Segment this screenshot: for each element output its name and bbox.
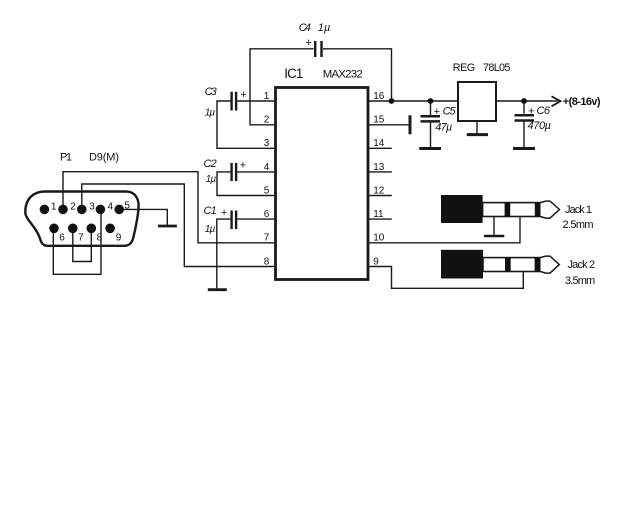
svg-text:11: 11	[373, 209, 384, 220]
capacitor C1 plates	[232, 211, 237, 230]
capacitor C2 plates	[232, 163, 237, 181]
svg-text:16: 16	[373, 91, 385, 102]
svg-text:8: 8	[97, 233, 103, 244]
connector Jack1 barrel	[483, 203, 541, 217]
svg-text:C3: C3	[205, 86, 218, 98]
svg-text:1µ: 1µ	[205, 224, 216, 235]
svg-text:12: 12	[373, 185, 385, 196]
svg-text:14: 14	[373, 138, 385, 149]
ground (Jack1)	[484, 235, 504, 238]
ground (C5)	[419, 147, 441, 150]
voltage regulator REG 78L05 box	[458, 82, 496, 121]
svg-text:47µ: 47µ	[435, 121, 452, 133]
node pin15 terminator bar	[409, 115, 412, 134]
node junction pin16/C4	[389, 98, 395, 104]
wire REG ground pin	[476, 121, 478, 133]
svg-text:C2: C2	[204, 158, 217, 170]
svg-text:2.5mm: 2.5mm	[563, 219, 594, 231]
wire DB9 pin2 to IC pin7	[63, 172, 274, 243]
connector Jack1 tip	[541, 201, 560, 218]
svg-text:5: 5	[264, 185, 270, 196]
node P1 pin9 dot	[105, 224, 115, 234]
svg-text:C5: C5	[443, 106, 457, 118]
svg-text:8: 8	[264, 256, 270, 267]
svg-text:C4: C4	[299, 22, 311, 34]
wire Jack1 sleeve to ground	[493, 217, 495, 235]
connector Jack2 tip	[541, 256, 560, 273]
svg-text:7: 7	[78, 233, 84, 244]
wire C3 right plate to IC pin1	[237, 100, 274, 102]
svg-text:+(8-16v): +(8-16v)	[563, 96, 601, 108]
wire C3 left plate to IC pin3	[217, 101, 274, 148]
connector Jack2 ring stripe1	[505, 258, 511, 272]
svg-text:5: 5	[124, 200, 130, 211]
wire IC pin12 stub	[369, 195, 392, 197]
node P1 pin1 dot	[40, 205, 50, 215]
node junction C6	[521, 98, 527, 104]
svg-text:6: 6	[59, 233, 65, 244]
svg-text:Jack 2: Jack 2	[568, 259, 596, 271]
node junction C5	[428, 98, 434, 104]
svg-text:9: 9	[116, 233, 122, 244]
svg-text:13: 13	[373, 162, 385, 173]
op-amp U1: IC1 MAX232 body	[276, 88, 369, 280]
svg-text:Jack 1: Jack 1	[565, 204, 592, 216]
capacitor C5 plates	[421, 116, 441, 121]
wire IC pin11 stub	[369, 218, 392, 220]
node P1 pin5 dot	[114, 205, 124, 215]
svg-text:C1: C1	[204, 205, 217, 217]
svg-text:4: 4	[264, 162, 270, 173]
wire REG output to supply arrow	[496, 100, 558, 102]
svg-text:78L05: 78L05	[483, 62, 510, 74]
svg-text:REG: REG	[453, 62, 475, 74]
svg-text:4: 4	[108, 202, 114, 213]
wire C2 left plate to IC pin5	[217, 172, 274, 196]
svg-text:+: +	[306, 37, 312, 49]
capacitor C6 legs	[523, 101, 525, 147]
svg-text:+: +	[240, 89, 246, 101]
node supply arrow head	[552, 96, 561, 106]
node P1 pin3 dot	[77, 205, 87, 215]
wire DB9 pin4 to pin6 link	[53, 209, 101, 274]
svg-text:1µ: 1µ	[205, 107, 216, 118]
svg-text:3: 3	[264, 138, 270, 149]
ground (DB9 pin5)	[158, 225, 177, 228]
svg-text:MAX232: MAX232	[323, 69, 363, 81]
wire C1 left plate down to ground	[217, 219, 231, 288]
connector Jack2 barrel	[483, 258, 541, 272]
svg-text:1µ: 1µ	[318, 22, 331, 34]
connector Jack1 ring stripe1	[505, 203, 511, 217]
svg-text:3.5mm: 3.5mm	[565, 275, 595, 287]
capacitor C6 plates	[515, 115, 535, 120]
connector P1 shell	[25, 192, 138, 246]
wire IC pin16 to REG input	[369, 100, 458, 102]
node P1 pin4 dot	[96, 205, 106, 215]
svg-text:2: 2	[70, 202, 76, 213]
svg-text:3: 3	[89, 202, 95, 213]
connector Jack1 body	[441, 195, 483, 223]
connector Jack2 body	[441, 250, 483, 279]
svg-text:1µ: 1µ	[206, 174, 217, 185]
svg-text:P1: P1	[60, 151, 72, 163]
ground (C6)	[513, 147, 535, 150]
wire C1 right plate to IC pin6	[237, 218, 274, 220]
svg-text:+: +	[528, 105, 534, 117]
connector Jack2 ring stripe2	[535, 258, 541, 272]
svg-text:10: 10	[373, 233, 385, 244]
wire IC pin10 to Jack1	[369, 217, 520, 243]
svg-text:+: +	[221, 207, 227, 219]
capacitor C3 plates	[232, 92, 237, 111]
svg-text:470µ: 470µ	[528, 120, 552, 132]
svg-text:15: 15	[373, 115, 385, 126]
connector Jack1 ring stripe2	[535, 203, 541, 217]
wire IC pin13 stub	[369, 171, 392, 173]
svg-text:9: 9	[373, 256, 379, 267]
node P1 pin7 dot	[68, 224, 78, 234]
svg-text:+: +	[240, 159, 246, 171]
node P1 pin2 dot	[58, 205, 68, 215]
ground (C1)	[208, 288, 227, 291]
wire IC pin15 to terminator	[369, 124, 409, 126]
svg-text:D9(M): D9(M)	[89, 151, 119, 163]
capacitor C4 plates	[315, 41, 321, 57]
svg-text:6: 6	[264, 209, 270, 220]
wire IC pin9 to Jack2	[369, 267, 523, 289]
wire C2 right plate to IC pin4	[237, 171, 274, 173]
svg-text:+: +	[434, 106, 440, 118]
svg-text:2: 2	[264, 115, 270, 126]
wire DB9 pin5 to ground	[119, 209, 167, 225]
wire+capacitor C4 loop: IC pin2 up over top to pin16	[250, 49, 392, 125]
svg-text:C6: C6	[537, 105, 551, 117]
wire DB9 pin3 to IC pin8	[82, 184, 274, 267]
capacitor C5 legs	[430, 101, 432, 147]
svg-text:IC1: IC1	[284, 66, 303, 81]
svg-text:7: 7	[264, 233, 270, 244]
ground (REG)	[467, 133, 488, 136]
node P1 pin6 dot	[49, 224, 59, 234]
svg-text:1: 1	[264, 91, 270, 102]
wire IC pin14 stub	[369, 147, 392, 149]
node P1 pin8 dot	[87, 224, 97, 234]
svg-text:1: 1	[51, 202, 57, 213]
wire DB9 pin7-pin8 link	[73, 228, 92, 261]
